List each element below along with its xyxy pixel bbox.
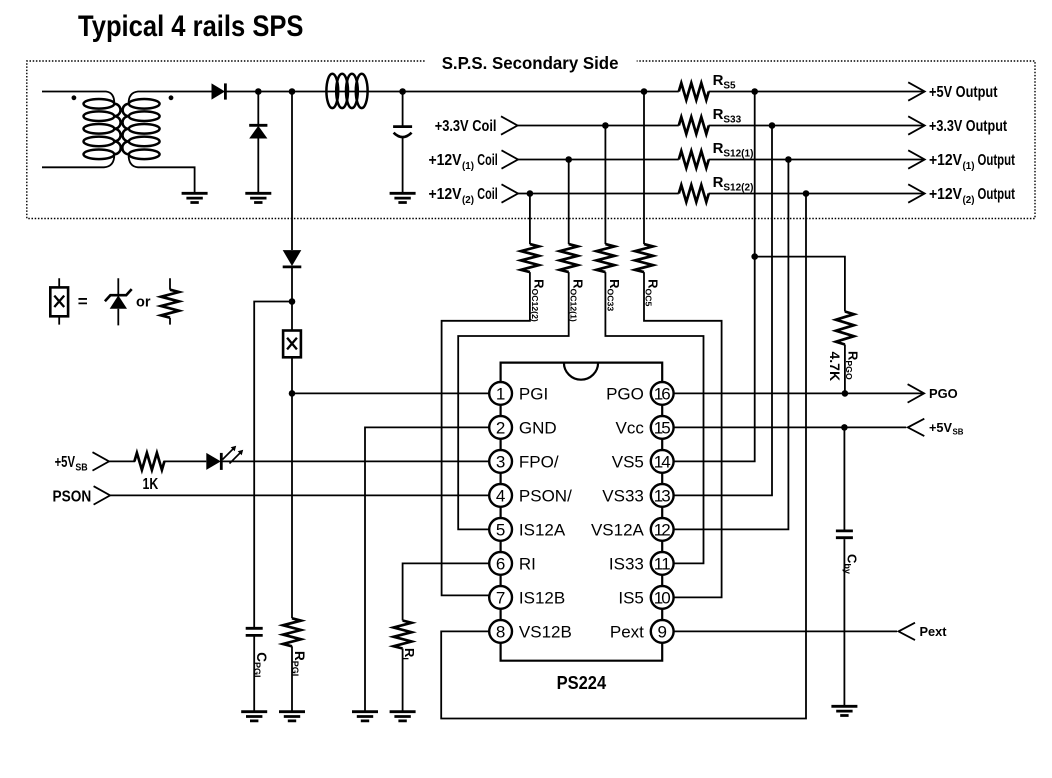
svg-text:PSON: PSON <box>53 488 92 505</box>
svg-text:2: 2 <box>496 418 505 437</box>
svg-text:(2): (2) <box>963 194 975 206</box>
svg-text:9: 9 <box>657 622 666 641</box>
svg-text:R: R <box>713 174 724 191</box>
svg-text:PGI: PGI <box>519 384 548 403</box>
svg-text:4.7K: 4.7K <box>827 352 843 382</box>
svg-text:Pext: Pext <box>920 625 948 639</box>
svg-text:R: R <box>713 72 724 89</box>
svg-text:5: 5 <box>496 520 505 539</box>
svg-text:SB: SB <box>953 427 964 437</box>
svg-text:+5V: +5V <box>929 420 952 435</box>
svg-text:IS5: IS5 <box>618 588 644 607</box>
svg-text:+3.3V Output: +3.3V Output <box>929 118 1007 135</box>
svg-text:13: 13 <box>654 486 671 505</box>
svg-text:S12(2): S12(2) <box>723 182 753 193</box>
svg-text:Vcc: Vcc <box>616 418 645 437</box>
svg-text:4: 4 <box>496 486 505 505</box>
svg-text:1K: 1K <box>143 476 159 493</box>
svg-text:12: 12 <box>654 520 671 539</box>
svg-text:11: 11 <box>654 554 671 573</box>
svg-text:VS12A: VS12A <box>591 520 645 539</box>
svg-text:ROC5: ROC5 <box>644 279 661 306</box>
svg-text:VS33: VS33 <box>602 486 644 505</box>
svg-text:+12V: +12V <box>929 186 963 203</box>
svg-text:SB: SB <box>75 461 88 473</box>
svg-text:IS33: IS33 <box>609 554 644 573</box>
svg-text:ROC12(1): ROC12(1) <box>569 279 586 322</box>
svg-text:16: 16 <box>654 384 671 403</box>
svg-text:IS12B: IS12B <box>519 588 565 607</box>
svg-text:S.P.S. Secondary Side: S.P.S. Secondary Side <box>442 53 619 73</box>
svg-text:+12V: +12V <box>429 186 463 203</box>
svg-text:FPO/: FPO/ <box>519 452 559 471</box>
svg-text:1: 1 <box>496 384 505 403</box>
svg-text:S12(1): S12(1) <box>723 148 753 159</box>
svg-text:VS12B: VS12B <box>519 622 572 641</box>
svg-text:Output: Output <box>978 152 1015 169</box>
svg-text:Coil: Coil <box>477 152 497 169</box>
svg-text:15: 15 <box>654 418 671 437</box>
svg-text:IS12A: IS12A <box>519 520 566 539</box>
svg-text:(1): (1) <box>462 160 474 172</box>
svg-text:+12V: +12V <box>429 152 463 169</box>
svg-text:S33: S33 <box>723 114 741 125</box>
svg-text:CPGI: CPGI <box>252 652 269 677</box>
svg-text:7: 7 <box>496 588 505 607</box>
svg-text:VS5: VS5 <box>612 452 644 471</box>
svg-text:RPGI: RPGI <box>290 651 307 676</box>
svg-text:PS224: PS224 <box>557 672 607 693</box>
svg-text:R: R <box>713 106 724 123</box>
svg-text:or: or <box>136 295 151 311</box>
svg-text:Cby: Cby <box>843 554 860 574</box>
svg-text:PGO: PGO <box>606 384 644 403</box>
svg-text:(2): (2) <box>462 194 474 206</box>
svg-text:=: = <box>78 292 88 311</box>
svg-text:+12V: +12V <box>929 152 963 169</box>
svg-text:6: 6 <box>496 554 505 573</box>
svg-text:14: 14 <box>654 452 671 471</box>
svg-text:Pext: Pext <box>610 622 644 641</box>
svg-text:+3.3V Coil: +3.3V Coil <box>435 118 497 135</box>
svg-text:(1): (1) <box>963 160 975 172</box>
svg-text:3: 3 <box>496 452 505 471</box>
svg-text:R: R <box>713 140 724 157</box>
svg-text:RI: RI <box>519 554 536 573</box>
svg-text:RPGO: RPGO <box>844 351 861 380</box>
svg-text:ROC33: ROC33 <box>605 279 622 311</box>
svg-text:ROC12(2): ROC12(2) <box>530 279 547 322</box>
svg-text:10: 10 <box>654 588 671 607</box>
svg-text:Coil: Coil <box>477 186 497 203</box>
svg-text:+5V: +5V <box>55 454 76 471</box>
svg-text:PGO: PGO <box>929 386 958 401</box>
svg-text:GND: GND <box>519 418 557 437</box>
svg-text:+5V Output: +5V Output <box>929 84 998 101</box>
svg-text:Typical 4 rails SPS: Typical 4 rails SPS <box>78 10 304 43</box>
svg-text:S5: S5 <box>723 80 736 91</box>
svg-text:PSON/: PSON/ <box>519 486 572 505</box>
svg-text:Output: Output <box>978 186 1015 203</box>
svg-text:8: 8 <box>496 622 505 641</box>
svg-text:RI: RI <box>400 648 417 660</box>
